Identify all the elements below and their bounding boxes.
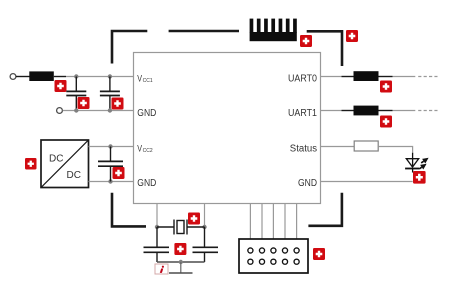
node GND-C3 [108,179,112,183]
marker plus R3 [380,116,392,128]
wire R2 lead right [379,76,393,78]
wire UART1 from IC [321,110,342,112]
node GND-C1 [74,108,78,112]
wire GND left [63,110,134,112]
wire U2 GND [89,181,134,183]
pin label VCC1 [137,74,153,85]
svg-text:GND: GND [137,178,156,189]
node VCC1-C2 [108,74,112,78]
wire XTAL pin1 [156,204,158,228]
LED D1 [405,153,429,173]
resistor R3 [354,106,379,116]
bracket bottom-left [112,193,146,227]
capacitor C4 [144,227,170,262]
resistor R4 [354,141,378,151]
marker plus J3 [313,248,325,260]
DC/DC converter U2 [41,140,89,188]
marker plus R1 [55,80,67,92]
wire connector pin2 [261,204,263,240]
resistor R1 [29,71,54,81]
svg-text:DC: DC [67,170,81,181]
crystal Y1 [157,220,205,235]
wire UART0 right [393,76,416,78]
resistor R2 [354,71,379,81]
svg-text:CC2: CC2 [143,148,153,154]
svg-text:CC1: CC1 [143,78,153,84]
capacitor C5 [193,227,219,262]
wire UART1 lead left [342,110,354,112]
terminal J1 [10,74,16,80]
IC U1 body [134,53,321,204]
wire connector pin5 [296,204,298,240]
note box i [155,264,168,274]
wire UART1 dashed [418,110,437,112]
node XTAL2 [202,225,206,229]
wire Status left [321,146,355,148]
connector J3 [239,239,308,273]
capacitor C1 [66,77,86,111]
ground [169,272,193,274]
pin label VCC2 [137,144,153,155]
node XTAL1 [155,225,159,229]
wire UART0 lead left [342,76,354,78]
node GND-C2 [108,108,112,112]
capacitor C2 [100,77,120,111]
bracket top-right [307,31,342,66]
svg-text:GND: GND [298,178,317,189]
wire J1 to R1 [16,76,30,78]
wire GND right [321,181,413,183]
marker plus C1 [78,97,90,109]
svg-text:DC: DC [49,154,63,165]
svg-text:UART1: UART1 [288,108,317,119]
node VCC1-C1 [74,74,78,78]
marker plus heatsink [300,35,312,47]
bracket bottom-right [308,193,342,226]
capacitor C3 [98,147,123,182]
wire Status right [378,147,412,154]
wire R3 lead right [379,110,393,112]
node ground [179,260,183,264]
marker plus R2 [380,81,392,93]
marker plus Y1 [188,213,200,225]
node VCC2-C3 [108,144,112,148]
wire UART1 right [393,110,416,112]
wire VCC2 [89,146,134,148]
wire XTAL pin2 [204,204,206,228]
bracket top-left [112,31,147,64]
wire connector pin4 [284,204,286,240]
wire UART0 dashed [418,76,437,78]
wire VCC1 [66,76,134,78]
marker plus U2 [25,158,37,170]
marker plus C2 [112,98,124,110]
wire connector pin3 [272,204,274,240]
terminal J2 [57,108,63,114]
wire UART0 from IC [321,76,342,78]
marker plus C4C5 [174,243,186,255]
wire XTAL bottom [157,261,205,263]
heatsink HS1 [250,19,297,42]
marker plus top-right bracket [346,30,358,42]
bracket top-middle [169,30,239,33]
svg-text:UART0: UART0 [288,74,317,85]
svg-text:Status: Status [290,144,317,155]
marker plus C3 [113,167,125,179]
marker plus LED [413,171,426,184]
wire ground stub [180,262,182,273]
wire R1 lead right [54,76,66,78]
wire connector pin1 [249,204,251,240]
svg-text:GND: GND [137,108,156,119]
